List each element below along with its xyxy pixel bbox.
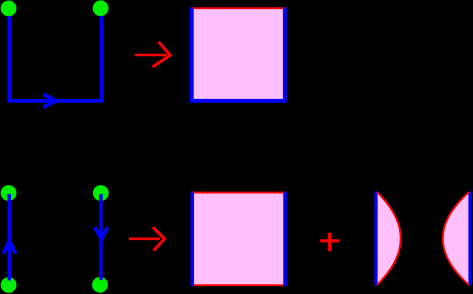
wire: left oriented segment (bottom diagram) bbox=[7, 194, 11, 281]
right lens red curve bbox=[443, 192, 469, 285]
red top edge of bottom square bbox=[191, 192, 287, 194]
left lens pink fill bbox=[377, 192, 401, 285]
green endpoint dot F (bottom-right segment, bottom) bbox=[92, 277, 108, 293]
wire: blue U-shaped path (top-left diagram) bbox=[9, 9, 101, 101]
green endpoint dot E (bottom-right segment, top) bbox=[93, 185, 109, 201]
blue right edge of bottom square bbox=[283, 192, 287, 286]
red plus sign bbox=[320, 239, 339, 242]
green endpoint dot B (top-right of U) bbox=[93, 0, 109, 16]
right lens pink fill bbox=[443, 192, 469, 285]
red bottom edge of bottom square bbox=[191, 284, 287, 286]
left lens blue edge bbox=[374, 192, 377, 286]
red map arrow (top row) bbox=[135, 54, 167, 57]
pink square fill (top) bbox=[192, 8, 285, 101]
red map arrow (bottom row) bbox=[129, 238, 160, 241]
blue down arrowhead on right segment bbox=[95, 227, 108, 239]
blue arrowhead on U path (points right) bbox=[44, 94, 57, 107]
blue up arrowhead on left segment bbox=[3, 241, 15, 254]
green endpoint dot D (bottom-left segment, bottom) bbox=[1, 277, 17, 293]
blue left edge of bottom square bbox=[191, 192, 195, 286]
green endpoint dot A (top-left) bbox=[1, 0, 17, 16]
wire: right oriented segment (bottom diagram) bbox=[99, 194, 103, 280]
right lens blue edge bbox=[468, 192, 471, 286]
blue left/bottom/right edges of top square bbox=[192, 7, 285, 100]
left lens red curve bbox=[377, 192, 401, 285]
red top edge of top square bbox=[190, 7, 286, 9]
pink square fill (bottom) bbox=[192, 193, 285, 286]
green endpoint dot C (bottom-left segment, top) bbox=[1, 185, 17, 201]
